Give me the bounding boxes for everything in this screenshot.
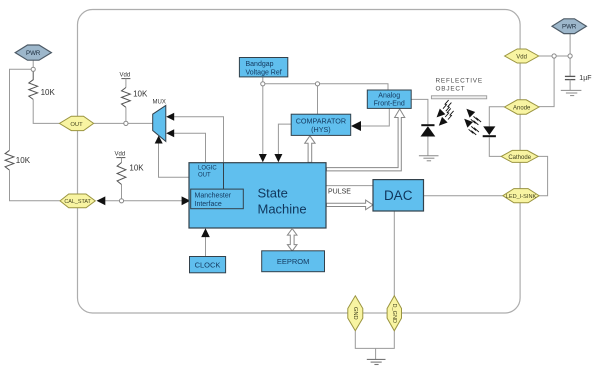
analog front-end box [367,90,411,108]
svg-text:OUT: OUT [70,122,83,128]
junction below PWR [31,67,35,71]
svg-text:Machine: Machine [258,202,307,217]
arrowhead MUX lower input [166,129,174,137]
wire MUX select from state machine left [159,142,190,177]
wire photodiode to ground [427,137,429,156]
arrowhead CLOCK into state machine [201,228,210,237]
mux MUX [153,105,166,141]
junction bandgap 2 [315,82,319,86]
clock box [190,257,226,273]
resistor R2 10K [5,150,14,170]
wire junction1 down to state machine [262,84,264,156]
svg-text:LED_I-SINK: LED_I-SINK [506,194,537,200]
wire MUX lower input from state machine top [173,133,206,162]
junction bandgap 1 [261,82,265,86]
wire CLOCK to state machine [205,236,207,257]
svg-text:10K: 10K [16,156,31,165]
svg-text:Analog: Analog [378,93,400,100]
svg-text:Front-End: Front-End [374,101,405,108]
junction R3/OUT [124,121,128,125]
chip boundary rounded rect [78,10,521,314]
svg-text:PWR: PWR [562,24,577,31]
svg-text:Vdd: Vdd [120,73,131,79]
eeprom box [262,251,325,272]
power symbol PWR left [15,45,51,60]
power symbol PWR right [552,19,586,34]
svg-text:EEPROM: EEPROM [277,257,310,266]
svg-text:Voltage Ref: Voltage Ref [246,70,282,77]
wire junction left branch [10,69,32,150]
svg-text:OUT: OUT [198,173,211,179]
arrowhead into CAL_STAT [97,196,106,205]
photodiode D1 [421,124,434,126]
svg-text:10K: 10K [41,88,56,97]
pin GND [348,296,363,331]
wire CAL_STAT bidirectional [104,200,183,202]
wire bandgap down to junction [262,77,264,84]
junction Vdd wire 1 [552,54,556,58]
svg-text:PULSE: PULSE [328,189,351,196]
arrowhead MUX upper input [166,113,174,121]
junction Vdd wire 2 [568,54,572,58]
resistor R1 10K [29,71,38,99]
svg-text:DAC: DAC [384,188,413,203]
wire OUT to MUX [94,122,153,124]
DAC box [373,180,424,211]
pin D_GND [387,296,401,331]
svg-text:Manchester: Manchester [195,193,232,200]
pin OUT [59,116,93,130]
svg-text:MUX: MUX [153,100,166,106]
svg-text:Vdd: Vdd [516,54,527,60]
svg-text:(HYS): (HYS) [311,125,331,134]
svg-text:Vdd: Vdd [115,152,126,158]
pin CAL_STAT [60,194,95,208]
resistor R3 10K [122,88,131,108]
wire Cathode around to LED_I-SINK [538,156,547,195]
svg-text:D_GND: D_GND [391,304,397,324]
wire junction down to Anode [539,56,554,107]
svg-text:1µF: 1µF [579,75,591,82]
capacitor C1 1uF [565,75,575,77]
hollow arrow state machine to comparator [305,136,315,163]
state machine box [189,163,326,228]
wire AFE to comparator [360,108,389,126]
resistor R4 10K [117,163,126,185]
arrowhead bandgap into state machine [259,154,267,162]
svg-text:PWR: PWR [26,50,41,57]
hollow arrow state machine to AFE [326,109,404,171]
arrowhead comparator into state machine [274,154,282,162]
wire capacitor to ground [569,80,571,91]
wire Anode to LED [489,107,504,127]
wire R1 to OUT line [33,99,59,123]
svg-text:Interface: Interface [195,201,222,208]
svg-text:Cathode: Cathode [508,155,531,161]
wire bandgap horizontal to AFE [263,84,388,90]
wire MUX upper input from logic out divider [173,117,224,163]
ground symbol bottom [367,359,386,364]
svg-text:10K: 10K [133,89,148,98]
reflective object bar [431,96,486,99]
svg-text:OBJECT: OBJECT [436,86,466,93]
arrowhead MUX select [155,136,163,144]
hollow double arrow state machine-EEPROM [287,229,297,252]
wire R4 down to CAL_STAT wire [121,185,123,199]
wire PWR2 down [569,34,571,56]
pin LED_I-SINK [503,189,539,203]
wire LED to Cathode [489,137,501,156]
svg-text:Anode: Anode [513,105,531,111]
svg-text:GND: GND [352,307,358,320]
Vdd bar 2 [116,157,125,159]
wire GND / D_GND to ground [355,331,394,348]
wire PWR to junction [32,60,34,67]
comparator box [291,114,351,135]
wire DAC bottom to D_GND [393,211,395,296]
svg-text:CLOCK: CLOCK [195,261,221,270]
wire Vdd pin to junctions [539,55,570,57]
wire stub to ground symbol [375,348,377,359]
wire R3 down to OUT wire [125,107,127,121]
wire R2 to CAL_STAT [10,170,61,201]
arrowhead into Manchester Interface [182,196,191,205]
hollow arrow state machine to DAC [326,200,373,210]
pin Vdd [505,49,539,63]
wire junction2 down to capacitor [569,56,571,76]
pin Anode [505,100,540,114]
ground below capacitor [561,90,582,95]
ground below photodiode [419,156,439,161]
svg-text:CAL_STAT: CAL_STAT [64,199,91,205]
light rays from LED [464,109,481,135]
junction R4/CAL_STAT [119,199,123,203]
logic out divider line [223,163,225,189]
bandgap box [239,58,287,77]
wire DAC to LED_I-SINK [424,195,503,197]
arrowhead AFE into comparator [351,121,361,131]
svg-text:LOGIC: LOGIC [198,166,217,172]
light rays into photodiode [437,100,454,126]
Vdd bar 1 [121,78,130,80]
svg-text:REFLECTIVE: REFLECTIVE [436,77,483,84]
svg-text:Bandgap: Bandgap [246,61,274,68]
svg-text:State: State [258,186,288,201]
manchester interface box [191,189,244,209]
svg-text:10K: 10K [129,163,144,172]
wire junction2 down to comparator top [317,84,319,114]
pin Cathode [501,150,538,162]
wire PULSE single [326,185,373,187]
wire comparator output to state machine [278,124,291,156]
LED D2 [483,126,495,135]
wire AFE to photodiode [411,99,428,124]
